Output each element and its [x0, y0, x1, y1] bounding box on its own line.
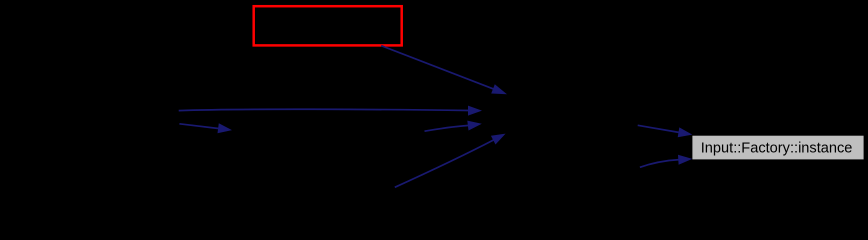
wire: edge E2 long horizontal	[179, 109, 470, 110]
svg-text:Input::Factory::instance: Input::Factory::instance	[701, 140, 853, 156]
arrowhead E3	[467, 121, 482, 131]
arrowhead E5	[218, 123, 233, 133]
node Input::Factory::instance (current function, grey fill)	[692, 136, 863, 160]
arrowhead E6	[678, 127, 693, 137]
wire: edge E4 curved from bottom	[395, 140, 495, 188]
arrowhead E7	[678, 155, 692, 165]
wire: edge E5 short left arrow	[179, 124, 219, 129]
wire: edge E1 from red node down-right	[381, 46, 495, 90]
arrowhead E1	[491, 84, 507, 94]
wire: edge E6 upper into Input::Factory::instance	[638, 125, 680, 132]
wire: edge E3 short rising	[425, 125, 470, 131]
wire: edge E7 lower curved into Input::Factory::instance	[640, 160, 680, 168]
arrowhead E4	[491, 134, 506, 145]
truncated caller node (red outline, label hidden on black)	[254, 6, 402, 45]
arrowhead E2	[468, 106, 482, 116]
